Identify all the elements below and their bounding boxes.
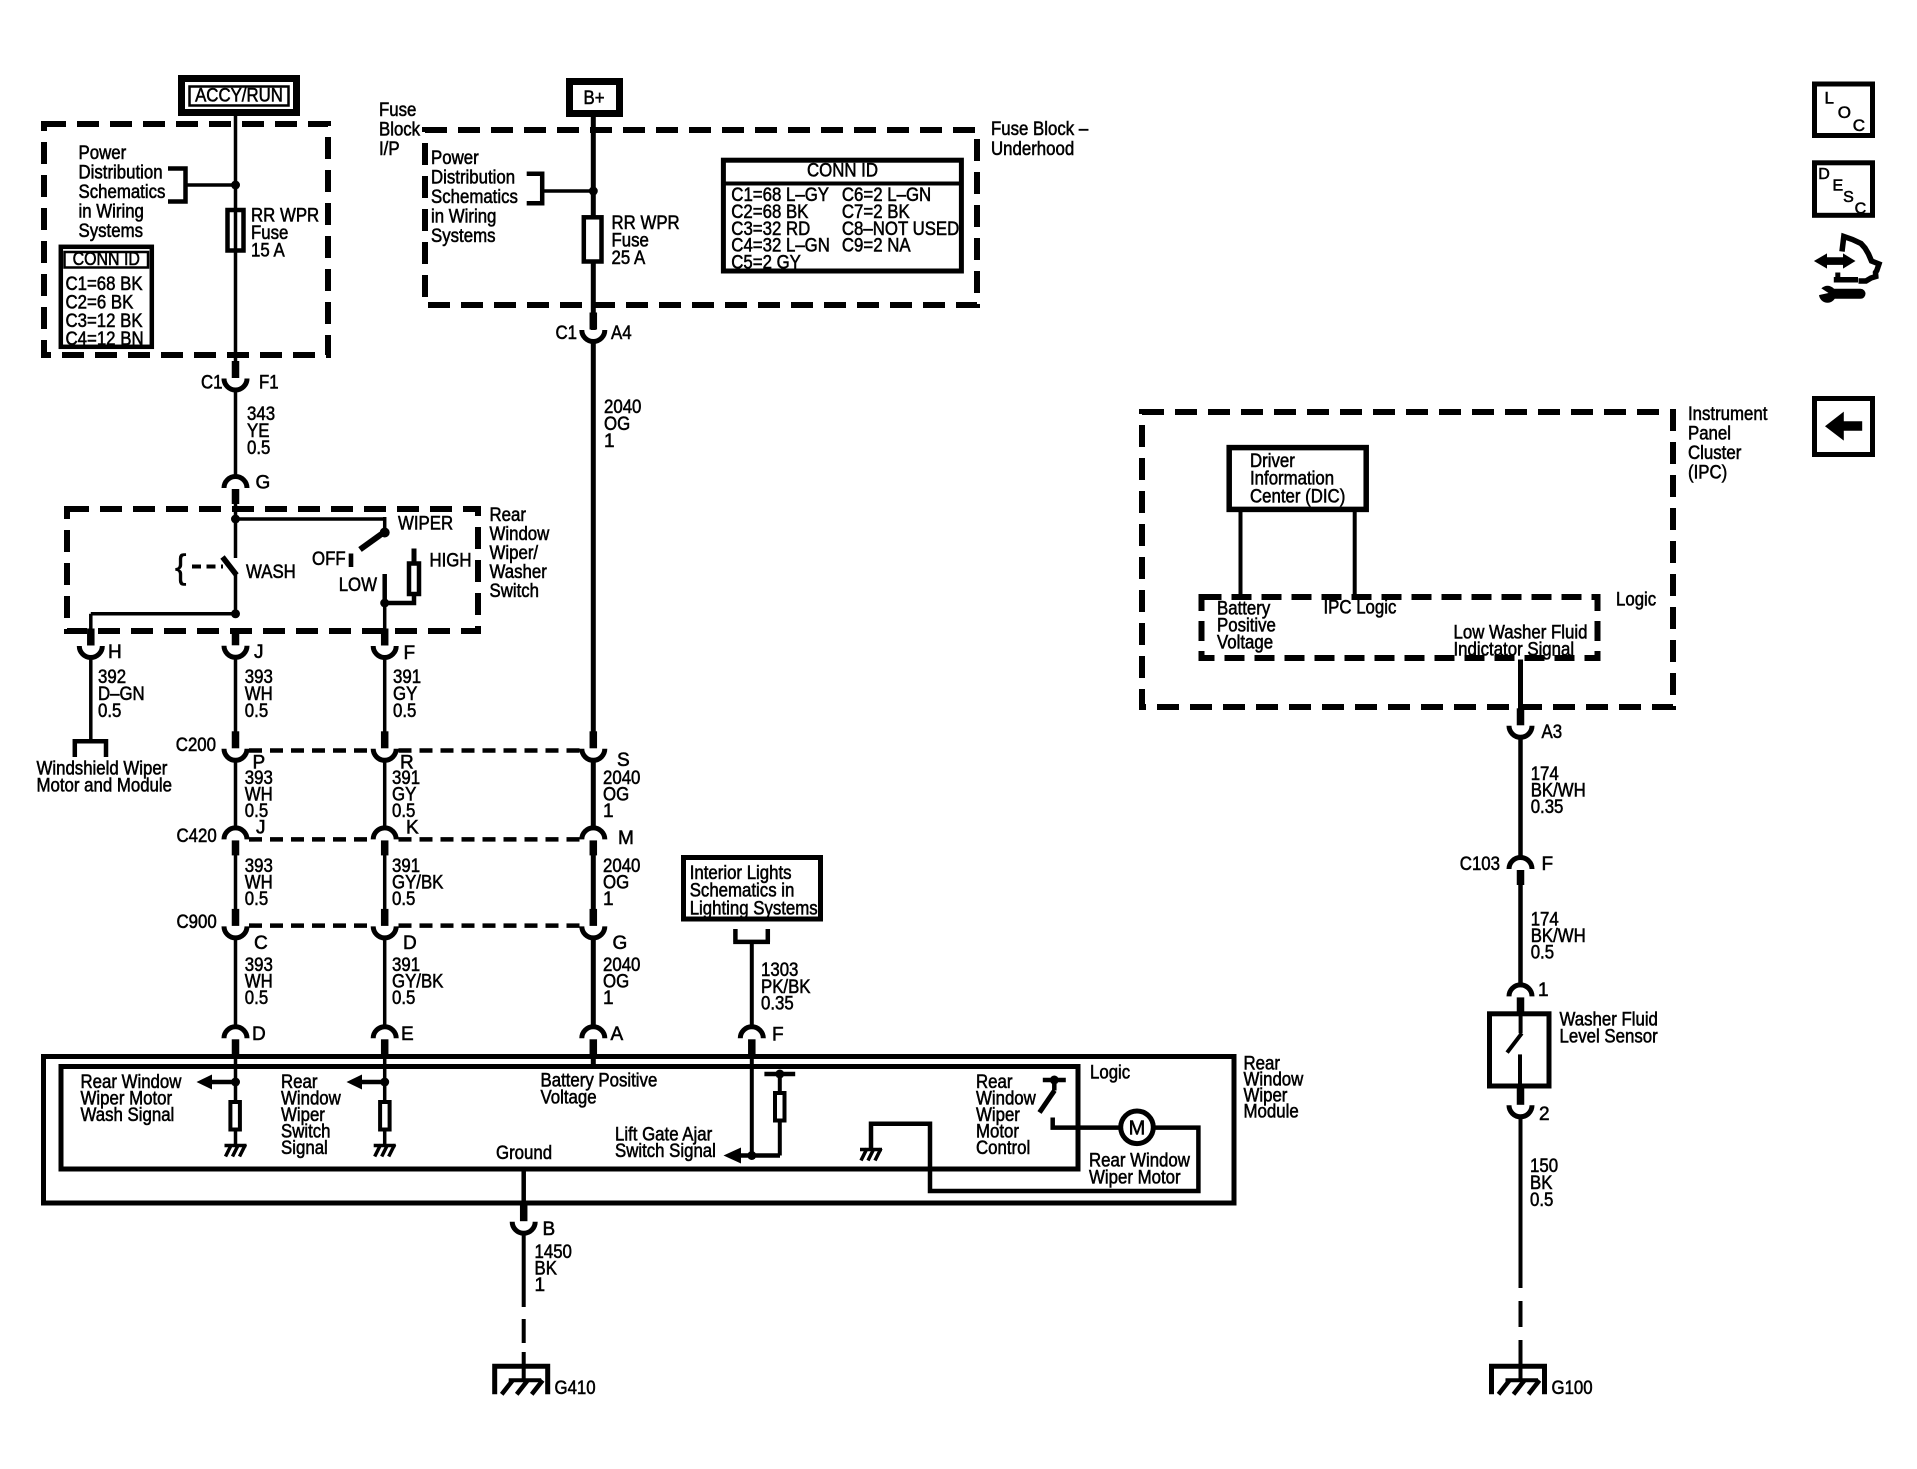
wire bracket to main (I/P) <box>186 183 236 187</box>
svg-text:0.5: 0.5 <box>1531 943 1554 964</box>
connector C420 J <box>224 828 247 855</box>
washer level switch symbol <box>1507 1014 1522 1086</box>
wire label 393 WH 0.5 (a) <box>245 667 273 722</box>
motor control lower contact <box>1053 1118 1121 1128</box>
svg-text:Cluster: Cluster <box>1688 443 1742 464</box>
wash signal arrow <box>197 1075 236 1090</box>
connector C420 M <box>582 828 634 855</box>
wire B+ to fuse <box>591 117 596 217</box>
fuse block I/P dashed box <box>44 124 328 355</box>
wire label 1303 PK/BK 0.35 <box>761 960 811 1015</box>
junction dot wash node <box>231 609 240 618</box>
wire E inside module <box>383 1054 387 1100</box>
svg-text:Motor and Module: Motor and Module <box>37 776 173 797</box>
label C900 <box>177 912 217 933</box>
svg-text:Level Sensor: Level Sensor <box>1560 1027 1659 1048</box>
svg-text:LOW: LOW <box>339 575 377 596</box>
label battery positive voltage (IPC) <box>1217 599 1276 654</box>
rear window wiper/washer switch dashed box <box>67 509 478 631</box>
icon back arrow box <box>1815 399 1873 455</box>
svg-text:A4: A4 <box>611 323 632 344</box>
power feed B+ label box <box>570 82 620 114</box>
motor control contact stub <box>1052 1080 1057 1091</box>
label battery positive voltage <box>541 1071 658 1109</box>
icon vehicle outline <box>1834 237 1879 282</box>
wire K to C900 <box>383 855 387 911</box>
label low washer fluid indictator signal <box>1454 623 1588 661</box>
wire bracket to main (underhood) <box>542 189 593 193</box>
svg-text:0.5: 0.5 <box>1530 1190 1553 1211</box>
label WIPER <box>398 514 453 535</box>
WASH linkage brace <box>175 549 186 587</box>
wire A into logic box <box>591 1054 596 1066</box>
WASH mechanical dashed link <box>192 565 223 569</box>
interior lights pendant <box>733 929 770 942</box>
lift gate ajar arrow <box>724 1148 781 1164</box>
wire A3 to C103 <box>1518 737 1523 857</box>
svg-text:E: E <box>1833 178 1844 195</box>
power distribution note (I/P) <box>79 143 166 242</box>
fuse RR WPR 25A label <box>612 213 680 269</box>
resistor lift gate <box>775 1093 785 1121</box>
ground G100 <box>1492 1366 1545 1394</box>
connector C103 F <box>1460 854 1553 885</box>
wire J to C900 <box>234 855 238 911</box>
IPC logic dashed box <box>1202 597 1598 658</box>
svg-text:Systems: Systems <box>79 221 144 242</box>
svg-text:Control: Control <box>976 1138 1030 1159</box>
CONN ID table (underhood) <box>723 160 961 273</box>
svg-text:Systems: Systems <box>431 226 496 247</box>
label windshield wiper motor and module <box>37 759 173 797</box>
svg-text:M: M <box>618 828 634 849</box>
svg-text:CONN ID: CONN ID <box>807 161 878 182</box>
svg-text:Voltage: Voltage <box>541 1088 597 1109</box>
svg-text:0.35: 0.35 <box>761 994 794 1015</box>
C200 dashed boundary <box>249 748 580 753</box>
wire motor loop <box>871 1124 1198 1191</box>
svg-text:IPC Logic: IPC Logic <box>1324 598 1397 619</box>
svg-text:Distribution: Distribution <box>431 168 515 189</box>
wire H down <box>89 658 93 742</box>
fuse block underhood label <box>991 119 1089 160</box>
connector C1 F1 <box>201 361 279 394</box>
wire M to C900 <box>591 855 596 911</box>
connector H <box>79 629 121 664</box>
label Logic (module) <box>1090 1063 1130 1084</box>
ground wash signal <box>225 1145 247 1157</box>
connector sensor pin 1 <box>1509 980 1549 1012</box>
svg-text:C900: C900 <box>177 912 217 933</box>
svg-text:B: B <box>543 1219 556 1240</box>
wire G to module <box>591 938 596 1029</box>
wire label 391 GY/BK 0.5 (c) <box>392 856 444 910</box>
junction dot (switch feed) <box>231 515 240 524</box>
svg-text:Fuse Block –: Fuse Block – <box>991 119 1089 140</box>
C900 dashed boundary <box>249 923 580 928</box>
svg-text:O: O <box>1838 103 1851 122</box>
svg-text:A: A <box>611 1024 624 1045</box>
connector C200 P <box>224 731 265 773</box>
svg-text:25 A: 25 A <box>612 248 646 269</box>
wire to WIPER contact <box>236 517 385 529</box>
label HIGH <box>430 551 472 572</box>
wire label 2040 OG 1 (d) <box>603 955 640 1009</box>
svg-text:I/P: I/P <box>379 139 400 160</box>
wire C103 to sensor pin1 <box>1518 884 1523 985</box>
label rear window wiper motor <box>1089 1151 1190 1189</box>
svg-text:C: C <box>1853 116 1865 135</box>
instrument panel cluster dashed box <box>1142 412 1673 707</box>
icon vehicle double arrow <box>1814 253 1856 268</box>
wire label 391 GY 0.5 <box>393 667 421 722</box>
label K (C420 cavity) <box>406 818 419 839</box>
svg-text:Logic: Logic <box>1616 590 1656 611</box>
svg-text:1: 1 <box>1538 980 1549 1001</box>
resistor switch signal <box>380 1102 390 1130</box>
svg-text:0.5: 0.5 <box>245 701 268 722</box>
wire DIC left to logic <box>1239 509 1243 596</box>
wire DIC right to logic <box>1353 509 1357 596</box>
wire ground B <box>521 1169 526 1206</box>
svg-text:A3: A3 <box>1542 722 1563 743</box>
wire J to C200 <box>234 658 238 734</box>
wire HIGH resistor to LOW node <box>385 594 414 603</box>
svg-text:0.5: 0.5 <box>245 988 268 1009</box>
wire sensor to ground solid <box>1519 1117 1523 1263</box>
connector C200 S <box>582 731 630 771</box>
svg-text:0.5: 0.5 <box>247 438 270 459</box>
svg-text:F: F <box>1542 854 1554 875</box>
connector C900 D <box>373 909 417 954</box>
svg-text:G: G <box>613 933 628 954</box>
svg-text:F: F <box>772 1025 784 1046</box>
svg-text:Instrument: Instrument <box>1688 404 1768 425</box>
wash switch arm <box>223 557 237 575</box>
wire low washer signal to A3 <box>1518 660 1523 712</box>
icon wrench <box>1814 284 1861 303</box>
svg-text:F1: F1 <box>259 373 279 394</box>
label washer fluid level sensor <box>1560 1010 1659 1048</box>
svg-text:in Wiring: in Wiring <box>431 207 496 228</box>
svg-text:0.5: 0.5 <box>392 889 415 910</box>
bracket to power distribution (I/P) <box>168 169 186 202</box>
svg-text:CONN ID: CONN ID <box>73 249 140 269</box>
label lift gate ajar switch signal <box>615 1125 716 1163</box>
power feed ACCY/RUN label box <box>182 79 297 113</box>
svg-text:WIPER: WIPER <box>398 514 453 535</box>
svg-text:ACCY/RUN: ACCY/RUN <box>195 86 283 107</box>
junction dot lift gate <box>747 1151 756 1160</box>
motor control switch arm <box>1040 1091 1055 1113</box>
svg-text:Wiper Motor: Wiper Motor <box>1089 1168 1181 1189</box>
svg-text:0.5: 0.5 <box>393 701 416 722</box>
wire ACCY/RUN to fuse <box>234 116 238 376</box>
power distribution note (underhood) <box>431 148 518 247</box>
windshield wiper motor pendant <box>75 741 106 757</box>
wire resistor to lift gate node <box>778 1121 782 1156</box>
svg-text:F: F <box>404 643 416 664</box>
svg-text:Module: Module <box>1244 1102 1299 1123</box>
svg-text:C9=2 NA: C9=2 NA <box>842 236 911 257</box>
svg-text:C1: C1 <box>201 373 223 394</box>
svg-text:HIGH: HIGH <box>430 551 472 572</box>
wiper switch arm <box>360 534 382 550</box>
svg-text:Panel: Panel <box>1688 424 1731 445</box>
wire into G100 <box>1519 1352 1523 1381</box>
label rear window wiper module <box>1244 1054 1304 1123</box>
svg-text:Center (DIC): Center (DIC) <box>1250 486 1345 507</box>
svg-text:B+: B+ <box>584 88 605 109</box>
svg-text:C1: C1 <box>556 323 578 344</box>
OFF contact tick <box>349 554 354 568</box>
connector module D <box>224 1024 266 1054</box>
svg-text:C: C <box>254 933 268 954</box>
wire S to C420 <box>591 760 596 829</box>
switch label <box>490 505 550 602</box>
wire C1-A4 to S <box>591 342 596 734</box>
wire label 391 GY 0.5 (b) <box>392 768 420 822</box>
wire F inside module <box>750 1054 754 1156</box>
svg-text:Signal: Signal <box>281 1138 328 1159</box>
svg-text:Schematics: Schematics <box>79 182 166 203</box>
junction dot (underhood feed) <box>589 187 598 196</box>
label IPC logic <box>1324 598 1397 619</box>
resistor wash signal <box>230 1102 240 1130</box>
wire R to C420 <box>383 760 387 829</box>
svg-text:Rear: Rear <box>490 505 527 526</box>
label J (C420 cavity) <box>256 818 266 839</box>
svg-text:E: E <box>401 1024 414 1045</box>
junction dot LOW node <box>380 599 389 608</box>
LOW contact line <box>382 574 387 603</box>
svg-text:Power: Power <box>431 148 479 169</box>
wire label 393 WH 0.5 (c) <box>245 856 273 910</box>
svg-text:C5=2 GY: C5=2 GY <box>731 253 801 274</box>
svg-text:J: J <box>256 818 266 839</box>
icon LOC box <box>1815 84 1873 136</box>
svg-text:M: M <box>1129 1118 1146 1140</box>
svg-text:0.5: 0.5 <box>98 701 121 722</box>
wire wash node to H branch <box>91 614 236 632</box>
svg-text:in Wiring: in Wiring <box>79 202 144 223</box>
wire sensor to ground dashed <box>1519 1262 1523 1352</box>
wire B to ground <box>522 1352 526 1381</box>
svg-text:Lighting Systems: Lighting Systems <box>690 898 818 919</box>
svg-text:H: H <box>108 642 122 663</box>
wire resistor to ground (switch) <box>383 1130 387 1146</box>
fuse RR WPR 15A label <box>251 206 319 262</box>
label C200 <box>176 735 216 756</box>
fuse block underhood dashed box <box>425 130 977 305</box>
wire D inside module <box>234 1054 238 1100</box>
svg-text:S: S <box>1843 189 1854 206</box>
wire label 393 WH 0.5 (d) <box>245 955 273 1009</box>
rear window wiper module box <box>44 1057 1235 1204</box>
wire label 2040 OG 1 (b) <box>603 768 640 822</box>
label LOW <box>339 575 377 596</box>
wire B dashed <box>522 1283 526 1352</box>
svg-text:D: D <box>252 1024 266 1045</box>
label G100 <box>1552 1378 1593 1399</box>
connector B <box>512 1204 555 1240</box>
svg-text:G100: G100 <box>1552 1378 1593 1399</box>
svg-text:OFF: OFF <box>312 549 346 570</box>
label Logic (IPC) <box>1616 590 1656 611</box>
wire F to C200 <box>383 658 387 734</box>
lift gate pullup T-bar <box>764 1070 795 1079</box>
svg-text:Power: Power <box>79 143 127 164</box>
svg-text:G: G <box>256 473 271 494</box>
svg-text:Voltage: Voltage <box>1217 633 1273 654</box>
ground G410 <box>495 1366 548 1394</box>
svg-text:Underhood: Underhood <box>991 139 1074 160</box>
connector F (switch) <box>373 629 415 665</box>
connector G <box>224 473 270 505</box>
connector module A <box>582 1024 624 1054</box>
wire label 1450 BK 1 <box>535 1242 572 1296</box>
svg-text:C103: C103 <box>1460 854 1500 875</box>
junction dot switch signal <box>380 1078 389 1087</box>
wire label 343 YE 0.5 <box>247 404 275 459</box>
ground switch signal <box>374 1145 396 1157</box>
svg-text:D: D <box>403 933 417 954</box>
CONN ID table (I/P) <box>61 247 152 350</box>
svg-text:Wash Signal: Wash Signal <box>81 1105 175 1126</box>
label WASH <box>246 562 296 583</box>
svg-text:Wiper/: Wiper/ <box>490 543 539 564</box>
junction dot (I/P feed) <box>231 181 240 190</box>
wire B solid <box>522 1233 526 1283</box>
wire label 391 GY/BK 0.5 (d) <box>392 955 444 1009</box>
svg-text:0.35: 0.35 <box>1531 797 1564 818</box>
svg-text:2: 2 <box>1539 1104 1550 1125</box>
connector module E <box>373 1024 413 1054</box>
svg-text:L: L <box>1825 89 1834 108</box>
interior lights schematics box <box>684 858 821 920</box>
wire T-bar to resistor <box>778 1074 782 1093</box>
svg-text:Fuse: Fuse <box>379 100 416 121</box>
wire resistor to ground (wash) <box>234 1130 238 1146</box>
wire label 392 D-GN 0.5 <box>98 667 145 722</box>
connector sensor pin 2 <box>1509 1088 1550 1125</box>
ground motor loop <box>860 1149 882 1161</box>
svg-text:15 A: 15 A <box>251 241 285 262</box>
wire P to C420 <box>234 760 238 829</box>
svg-text:Logic: Logic <box>1090 1063 1130 1084</box>
connector C200 R <box>373 731 414 773</box>
svg-text:J: J <box>254 642 264 663</box>
wire C1-F1 to G <box>234 390 238 477</box>
svg-text:C4=12 BN: C4=12 BN <box>66 329 144 350</box>
label rear window wiper switch signal <box>281 1072 341 1159</box>
svg-text:(IPC): (IPC) <box>1688 463 1727 484</box>
connector C1 A4 <box>556 313 632 345</box>
svg-text:1: 1 <box>535 1275 546 1296</box>
svg-text:0.5: 0.5 <box>245 889 268 910</box>
WIPER contact dot <box>380 528 390 538</box>
wire label 2040 OG 1 (c) <box>603 856 640 910</box>
switch signal arrow <box>347 1075 385 1090</box>
icon DESC box <box>1815 163 1873 218</box>
svg-text:Ground: Ground <box>496 1143 552 1164</box>
svg-text:1: 1 <box>603 988 614 1009</box>
HIGH resistor <box>409 549 419 595</box>
connector J <box>224 628 264 663</box>
label rear window wiper motor wash signal <box>81 1072 182 1126</box>
svg-text:Schematics: Schematics <box>431 187 518 208</box>
svg-text:Switch Signal: Switch Signal <box>615 1141 716 1162</box>
svg-text:{: { <box>175 549 186 587</box>
wire label 174 BK/WH 0.35 <box>1531 764 1586 818</box>
wire wash arm to wash node <box>234 572 238 616</box>
connector module F <box>740 1025 783 1055</box>
fuse RR WPR 25A <box>584 217 602 261</box>
wire label 150 BK 0.5 <box>1530 1156 1558 1211</box>
svg-text:C200: C200 <box>176 735 216 756</box>
svg-text:C420: C420 <box>177 826 217 847</box>
motor M circle <box>1121 1111 1154 1144</box>
label G410 <box>555 1378 596 1399</box>
wire label 393 WH 0.5 (b) <box>245 768 273 822</box>
module logic box <box>61 1067 1078 1170</box>
svg-text:Window: Window <box>490 524 550 545</box>
svg-text:Washer: Washer <box>490 562 548 583</box>
label Ground (module) <box>496 1143 552 1164</box>
fuse RR WPR 15A <box>228 210 244 251</box>
label OFF <box>312 549 346 570</box>
C420 dashed boundary <box>249 837 580 842</box>
svg-text:G410: G410 <box>555 1378 596 1399</box>
washer fluid level sensor box <box>1490 1014 1550 1086</box>
svg-text:1: 1 <box>603 801 614 822</box>
svg-text:Indictator Signal: Indictator Signal <box>1454 640 1575 661</box>
motor control T-bar <box>1043 1076 1066 1085</box>
label C420 <box>177 826 217 847</box>
wire G into switch <box>234 504 238 558</box>
connector C420 K <box>373 828 396 855</box>
label instrument panel cluster <box>1688 404 1768 484</box>
svg-text:C: C <box>1855 201 1867 218</box>
svg-text:Distribution: Distribution <box>79 163 163 184</box>
wire fuse 25A to C1 A4 <box>591 262 596 331</box>
junction dot wash signal <box>231 1078 240 1087</box>
wire C to module <box>234 938 238 1029</box>
label rear window wiper motor control <box>976 1072 1036 1159</box>
wire label 174 BK/WH 0.5 <box>1531 910 1586 964</box>
wire label 2040 OG 1 (a) <box>604 397 641 452</box>
svg-text:K: K <box>406 818 419 839</box>
svg-text:WASH: WASH <box>246 562 296 583</box>
connector C900 C <box>224 909 268 954</box>
wire D to module <box>383 938 387 1029</box>
svg-text:1: 1 <box>603 889 614 910</box>
bracket to power distribution (underhood) <box>527 174 543 204</box>
wire LOW node to F <box>383 603 387 632</box>
svg-text:1: 1 <box>604 431 615 452</box>
connector A3 <box>1509 708 1562 743</box>
driver information center box <box>1229 448 1366 510</box>
svg-text:D: D <box>1818 166 1830 183</box>
connector C900 G <box>582 909 627 954</box>
wire interior lights to F <box>750 942 754 1028</box>
svg-text:0.5: 0.5 <box>392 988 415 1009</box>
svg-text:Switch: Switch <box>490 581 540 602</box>
fuse block I/P label <box>379 100 434 160</box>
